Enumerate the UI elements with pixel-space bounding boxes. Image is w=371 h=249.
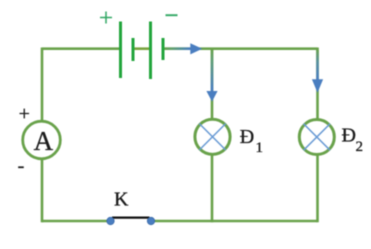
battery cell plate 3 (long): [149, 22, 152, 80]
svg-text:Đ: Đ: [342, 124, 356, 146]
battery cell plate 2 (short): [132, 38, 135, 61]
wire middle vertical upper: [211, 48, 214, 119]
wire bottom right: [155, 220, 318, 223]
svg-text:-: -: [18, 155, 25, 177]
svg-text:Đ: Đ: [240, 126, 254, 148]
switch K blade: [112, 217, 150, 219]
lamp D2 circle: [299, 120, 334, 155]
wire left vertical lower: [41, 160, 44, 223]
battery minus label: [166, 14, 178, 16]
svg-text:1: 1: [256, 140, 264, 156]
wire right vertical upper: [316, 48, 319, 120]
current arrow into lamp D1: [206, 50, 217, 102]
lamp D1 cross: [199, 124, 225, 150]
wire top-left horizontal: [42, 47, 120, 50]
svg-text:2: 2: [356, 139, 364, 155]
wire right vertical lower: [316, 156, 319, 223]
switch K terminal right: [147, 217, 154, 224]
ammeter A circle: [23, 121, 61, 159]
lamp D1 circle: [195, 119, 230, 154]
wire left vertical upper: [41, 48, 44, 122]
current arrow at battery output: [165, 43, 202, 54]
current arrow into lamp D2: [312, 50, 323, 93]
svg-text:+: +: [19, 103, 30, 125]
svg-text:A: A: [34, 126, 54, 156]
wire bottom left: [42, 220, 108, 223]
lamp D2 cross: [304, 124, 330, 150]
wire battery cell bridge: [133, 47, 151, 50]
svg-text:K: K: [114, 189, 129, 211]
wire top-right horizontal: [164, 47, 318, 50]
battery cell plate 1 (long): [119, 22, 122, 79]
battery cell plate 4 (short): [162, 38, 165, 60]
battery plus label: [100, 12, 112, 24]
wire middle vertical lower: [211, 156, 214, 223]
switch K terminal left: [107, 217, 114, 224]
